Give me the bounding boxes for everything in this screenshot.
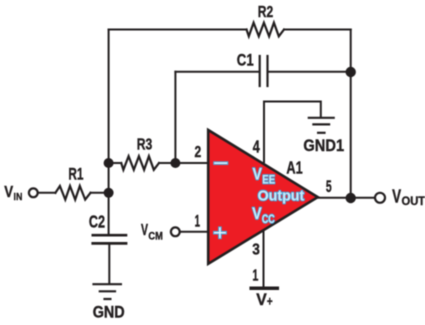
svg-text:1: 1 [195,212,200,231]
svg-text:V: V [256,290,267,309]
svg-text:V: V [4,184,13,201]
svg-text:1: 1 [252,268,258,285]
svg-text:V: V [141,222,148,239]
svg-text:5: 5 [326,178,332,196]
svg-text:4: 4 [253,136,260,156]
svg-text:C1: C1 [237,50,254,69]
svg-text:Output: Output [258,188,305,205]
svg-text:CC: CC [262,212,275,226]
svg-text:IN: IN [14,191,23,203]
svg-text:3: 3 [252,241,260,258]
svg-text:GND1: GND1 [303,136,344,155]
svg-text:R1: R1 [68,165,83,183]
svg-text:V: V [252,204,262,223]
svg-text:V: V [253,164,263,183]
svg-text:2: 2 [195,144,202,161]
svg-text:GND: GND [93,304,125,322]
svg-text:CM: CM [148,231,162,243]
svg-text:A1: A1 [286,157,303,177]
svg-text:R2: R2 [258,4,273,21]
svg-text:EE: EE [262,173,275,187]
svg-text:V: V [392,187,401,207]
svg-text:C2: C2 [89,211,105,231]
svg-text:OUT: OUT [402,194,425,208]
svg-text:+: + [267,294,273,309]
svg-text:R3: R3 [137,137,153,154]
